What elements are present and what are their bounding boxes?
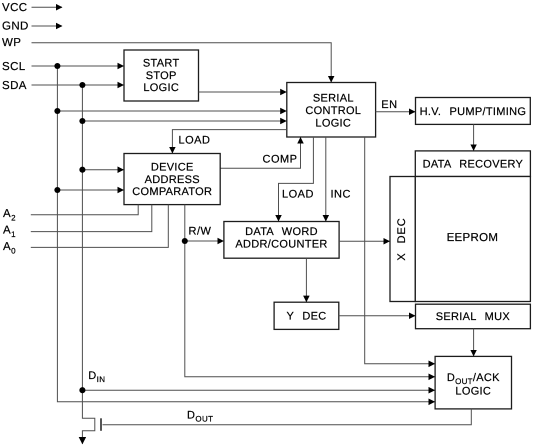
svg-text:ADDR/COUNTER: ADDR/COUNTER <box>235 238 327 250</box>
wire DOUT from DOUT/ACK LOGIC to transistor gate <box>103 409 472 425</box>
wire LOAD from SERIAL CONTROL LOGIC to DEVICE ADDRESS COMPARATOR top <box>172 130 286 153</box>
svg-text:A0: A0 <box>3 241 16 255</box>
svg-text:Y DEC: Y DEC <box>287 311 327 323</box>
wire SDA to START STOP LOGIC <box>32 84 124 86</box>
wire addr counter to X DEC <box>339 240 389 242</box>
svg-text:H.V. PUMP/TIMING: H.V. PUMP/TIMING <box>420 106 527 118</box>
wire WP to SERIAL CONTROL LOGIC top <box>32 43 332 82</box>
block H.V. PUMP/TIMING <box>416 98 531 125</box>
svg-text:A2: A2 <box>3 208 16 222</box>
block EEPROM <box>415 177 530 302</box>
wire INC from SERIAL CONTROL LOGIC to DATA WORD ADDR/COUNTER <box>325 137 327 221</box>
svg-text:COMP: COMP <box>263 154 298 166</box>
wire VCC stub arrow <box>32 6 63 8</box>
svg-text:DEVICE: DEVICE <box>151 161 194 173</box>
junction node SDA branch y121 <box>79 118 85 124</box>
svg-text:INC: INC <box>331 189 351 201</box>
wire A0 to comparator <box>31 205 169 248</box>
wire DIN to DOUT/ACK LOGIC input 3 <box>82 389 434 391</box>
wire A2 to comparator <box>31 205 138 215</box>
block DEVICE ADDRESS COMPARATOR <box>124 154 220 205</box>
svg-text:SERIAL MUX: SERIAL MUX <box>436 311 511 323</box>
wire R/W branch to DATA WORD ADDR/COUNTER <box>185 240 224 242</box>
block DATA WORD ADDR/COUNTER <box>224 222 339 259</box>
block Y DEC <box>274 302 339 329</box>
svg-text:ADDRESS: ADDRESS <box>145 174 200 186</box>
svg-text:LOGIC: LOGIC <box>455 385 491 397</box>
wire SCL branch to SERIAL CONTROL LOGIC input 2 <box>57 110 286 112</box>
junction node SCL branch y111 <box>54 108 60 114</box>
svg-text:LOGIC: LOGIC <box>315 118 351 130</box>
svg-text:LOAD: LOAD <box>179 135 211 147</box>
wire SCL branch to DEVICE ADDRESS COMPARATOR input 2 <box>57 189 123 191</box>
wire SDA vertical trunk into output transistor drain <box>82 85 94 444</box>
wire SERIAL MUX to DOUT/ACK LOGIC <box>473 329 475 356</box>
wire LOAD from SERIAL CONTROL LOGIC to DATA WORD ADDR/COUNTER <box>279 137 314 221</box>
svg-text:DOUT: DOUT <box>187 409 213 423</box>
junction node R/W <box>182 238 188 244</box>
wire SCL vertical trunk down to DOUT/ACK input 4 <box>57 66 434 402</box>
svg-text:CONTROL: CONTROL <box>305 105 361 117</box>
transistor Q1 gate bar <box>100 418 102 431</box>
block START STOP LOGIC <box>124 50 199 101</box>
block SERIAL MUX <box>416 304 531 329</box>
block DOUT/ACK LOGIC <box>435 356 511 409</box>
wire EN to H.V. PUMP/TIMING <box>376 111 415 113</box>
wire COMP from comparator to SERIAL CONTROL LOGIC bottom <box>220 138 300 169</box>
wire addr counter to Y DEC <box>305 258 307 302</box>
svg-text:START: START <box>143 57 180 69</box>
svg-text:VCC: VCC <box>2 2 27 14</box>
wire A1 to comparator <box>31 205 152 232</box>
wire SCL to START STOP LOGIC <box>32 65 124 67</box>
svg-text:SDA: SDA <box>2 80 27 92</box>
svg-text:LOGIC: LOGIC <box>143 82 179 94</box>
svg-text:COMPARATOR: COMPARATOR <box>132 186 212 198</box>
wire Y DEC to SERIAL MUX <box>339 315 415 317</box>
wire SDA branch to SERIAL CONTROL LOGIC input 3 <box>82 120 286 122</box>
svg-text:GND: GND <box>2 20 29 32</box>
block SERIAL CONTROL LOGIC <box>287 83 376 138</box>
svg-text:DATA RECOVERY: DATA RECOVERY <box>423 159 524 171</box>
wire SDA branch to DEVICE ADDRESS COMPARATOR input 1 <box>82 169 123 171</box>
svg-text:DATA WORD: DATA WORD <box>245 226 318 238</box>
junction node SCL branch y190 <box>54 187 60 193</box>
svg-text:WP: WP <box>2 37 21 49</box>
svg-text:R/W: R/W <box>189 225 212 237</box>
wire SERIAL CONTROL LOGIC to DOUT/ACK LOGIC input 1 <box>365 137 435 364</box>
junction node DIN <box>79 387 85 393</box>
svg-text:A1: A1 <box>3 225 16 239</box>
svg-text:STOP: STOP <box>146 70 177 82</box>
svg-text:LOAD: LOAD <box>282 189 314 201</box>
block X DEC <box>390 177 415 302</box>
junction node SDA branch y170 <box>79 167 85 173</box>
svg-text:EEPROM: EEPROM <box>447 232 499 244</box>
svg-text:SCL: SCL <box>2 61 26 73</box>
wire GND stub arrow <box>32 25 63 27</box>
block DATA RECOVERY <box>415 151 530 177</box>
svg-text:EN: EN <box>381 99 397 111</box>
wire START STOP LOGIC to SERIAL CONTROL LOGIC input 1 <box>199 91 287 93</box>
junction node on SDA line <box>79 82 85 88</box>
svg-text:SERIAL: SERIAL <box>313 93 354 105</box>
wire comparator R/W trunk down to DOUT/ACK input 2 <box>185 205 435 377</box>
wire H.V. pump to DATA RECOVERY <box>473 124 475 150</box>
junction node on SCL line <box>54 63 60 69</box>
svg-text:DIN: DIN <box>88 370 105 384</box>
svg-text:X DEC: X DEC <box>396 217 408 260</box>
